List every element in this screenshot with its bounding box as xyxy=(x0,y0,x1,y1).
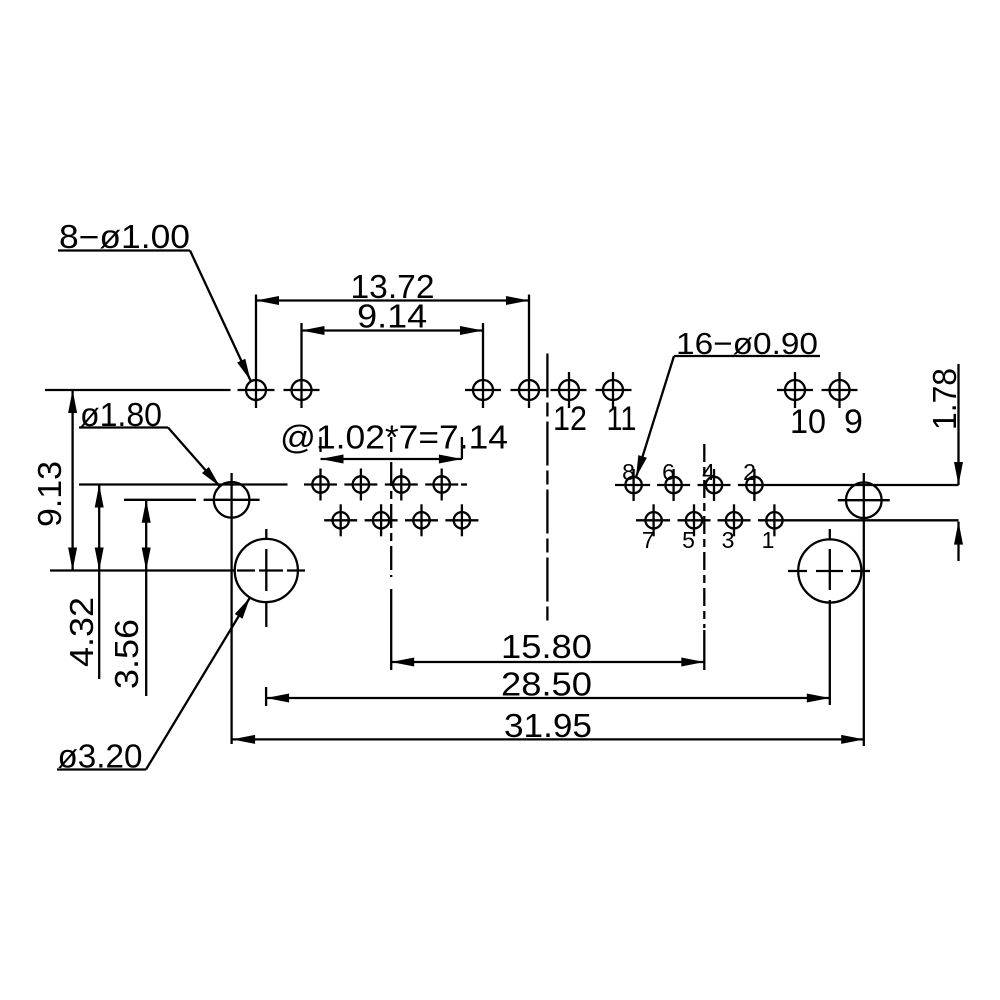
pin L-bot-1 xyxy=(333,512,349,528)
svg-text:9.14: 9.14 xyxy=(357,298,427,335)
28.50 left ext tick xyxy=(265,687,267,706)
svg-text:15.80: 15.80 xyxy=(501,628,592,665)
crosshair H2 xyxy=(284,389,320,391)
dimension 7.14 line xyxy=(321,458,462,460)
dimension 31.95 line xyxy=(232,738,864,740)
arrows 31.95 xyxy=(232,735,255,744)
pin L-top-2 xyxy=(353,476,369,492)
pin 8 xyxy=(625,477,641,493)
svg-text:6: 6 xyxy=(662,459,675,485)
svg-text:31.95: 31.95 xyxy=(504,707,592,744)
leader arrow 16-o0.90 xyxy=(636,455,647,477)
dimension 13.72 line xyxy=(256,299,529,301)
crosshair H6 xyxy=(596,389,632,391)
right group ext line to 15.80 xyxy=(703,630,705,670)
svg-text:28.50: 28.50 xyxy=(501,666,592,703)
hole H3 xyxy=(473,380,493,400)
svg-text:1.78: 1.78 xyxy=(926,368,963,430)
arrows 4.32 xyxy=(95,485,104,508)
pin L-top-4 xyxy=(434,476,450,492)
dimension 28.50 line xyxy=(266,697,830,699)
pin 4 xyxy=(706,477,722,493)
arrows 9.14 xyxy=(302,326,325,335)
pin L-top-3 xyxy=(393,476,409,492)
dimension 4.32 line xyxy=(98,485,100,680)
hole H5 (12) xyxy=(559,380,579,400)
svg-text:3: 3 xyxy=(722,527,735,553)
arrows 1.78 xyxy=(954,462,963,485)
label 16-o0.90 underline xyxy=(674,355,820,357)
leader arrow 8-o1.00 xyxy=(237,359,250,381)
pin 1 xyxy=(766,512,782,528)
arrows 13.72 xyxy=(256,296,279,305)
left pin group top row horizontal ext line xyxy=(79,483,288,485)
crosshair H1 xyxy=(238,389,275,391)
pin L-bot-3 xyxy=(413,512,429,528)
left group ext line to 15.80 xyxy=(390,589,392,670)
svg-text:12: 12 xyxy=(553,400,587,438)
svg-text:16−ø0.90: 16−ø0.90 xyxy=(676,326,818,361)
left group centerline dash-dot xyxy=(390,462,392,577)
svg-text:@1.02*7=7.14: @1.02*7=7.14 xyxy=(280,419,508,456)
crosshair H8 xyxy=(822,389,858,391)
pin 6 xyxy=(665,477,681,493)
svg-text:4: 4 xyxy=(702,459,715,485)
hole H2 xyxy=(292,380,312,400)
dimension 9.14 line xyxy=(302,329,484,331)
mounting hole M2 (phi 1.80 right) xyxy=(846,482,882,518)
hole H1 (top row) xyxy=(246,380,266,400)
svg-text:3.56: 3.56 xyxy=(108,619,145,689)
hole H7 (10) xyxy=(785,380,805,400)
svg-text:10: 10 xyxy=(790,403,826,441)
label o1.80 underline xyxy=(79,426,168,428)
svg-text:5: 5 xyxy=(682,527,695,553)
leader o3.20 xyxy=(146,598,250,770)
crosshair H7 xyxy=(777,389,813,391)
leader o1.80 xyxy=(168,428,220,487)
leader 16-o0.90 xyxy=(636,356,674,477)
big hole B2 (phi 3.20 right) xyxy=(798,539,861,602)
pin 5 xyxy=(686,512,702,528)
svg-text:9: 9 xyxy=(844,403,863,441)
label o3.20 underline xyxy=(57,768,146,770)
ext tick group centerline top xyxy=(390,437,392,452)
svg-text:9.13: 9.13 xyxy=(31,461,68,527)
leader 8-o1.00 xyxy=(190,251,251,381)
svg-text:4.32: 4.32 xyxy=(63,597,100,667)
hole H8 (9) xyxy=(830,380,850,400)
dash right of left group top row xyxy=(461,483,467,485)
dimension 3.56 line xyxy=(145,500,147,696)
arrows 15.80 xyxy=(391,658,414,667)
arrows 9.13 xyxy=(68,390,77,413)
dimension 15.80 line xyxy=(391,661,704,663)
dimension 1.78 stubs xyxy=(957,364,959,485)
arrows 28.50 xyxy=(266,694,289,703)
mounting hole M1 (phi 1.80 left) xyxy=(214,482,250,518)
arrows 3.56 xyxy=(142,500,151,523)
crosshair H5 xyxy=(551,389,587,391)
ext tick 7.14 left xyxy=(319,437,321,452)
arrows 7.14 xyxy=(321,455,344,464)
leader arrow o1.80 xyxy=(202,467,220,487)
svg-text:8−ø1.00: 8−ø1.00 xyxy=(59,218,190,255)
hole H6 (11) xyxy=(603,380,623,400)
right pin group bottom row line segments xyxy=(636,519,670,521)
leader arrow o3.20 xyxy=(235,598,250,619)
pin L-bot-2 xyxy=(373,512,389,528)
svg-text:ø3.20: ø3.20 xyxy=(58,738,143,775)
crosshair H4 xyxy=(511,389,548,391)
right group centerline dash-dot xyxy=(703,444,705,628)
big hole B1 (phi 3.20 left) xyxy=(235,539,298,602)
right pin group top row line segments xyxy=(615,484,650,486)
dimension 9.13 line xyxy=(71,390,73,571)
svg-text:7: 7 xyxy=(642,527,655,553)
pin 7 xyxy=(645,512,661,528)
pin 3 xyxy=(726,512,742,528)
ext line for 3.56 xyxy=(124,499,196,501)
pin L-top-1 xyxy=(312,476,328,492)
main centerline xyxy=(546,354,548,626)
ext tick 7.14 right xyxy=(461,437,463,459)
label 8-o1.00 underline xyxy=(58,249,190,251)
hole H4 xyxy=(519,380,539,400)
svg-text:2: 2 xyxy=(743,459,756,485)
pin 2 xyxy=(746,477,762,493)
svg-text:1: 1 xyxy=(762,527,775,553)
top hole row extension line left (y=390) xyxy=(45,389,231,391)
svg-text:8: 8 xyxy=(622,459,635,485)
pin L-bot-4 xyxy=(454,512,470,528)
svg-text:ø1.80: ø1.80 xyxy=(80,396,162,433)
crosshair H3 xyxy=(465,389,501,391)
svg-text:11: 11 xyxy=(607,400,637,438)
